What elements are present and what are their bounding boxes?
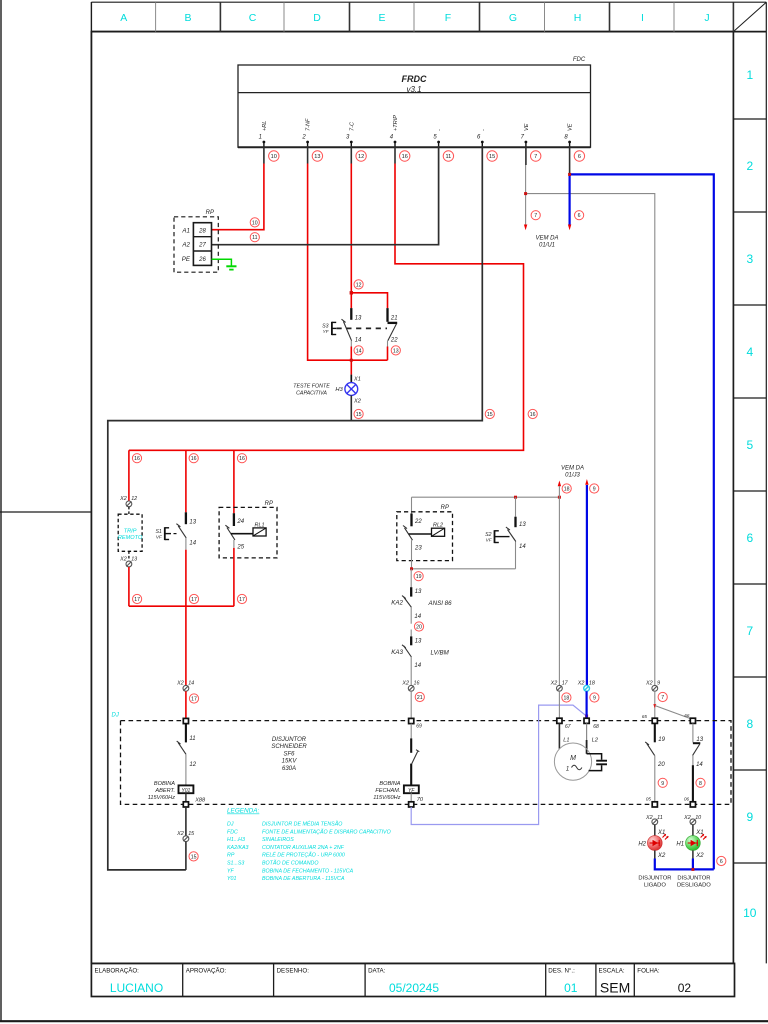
wire pin2 red down to S3 loop [308,146,388,360]
wire to RL2 [411,497,413,513]
svg-text:BOBINA: BOBINA [154,781,175,787]
svg-text:LEGENDA:: LEGENDA: [227,808,260,815]
svg-text:1: 1 [746,68,753,82]
svg-text:BOBINA DE ABERTURA - 115VCA: BOBINA DE ABERTURA - 115VCA [262,876,345,882]
svg-text:F: F [445,12,451,24]
svg-text:13: 13 [355,315,362,321]
branch 1 wire red [128,450,130,501]
wire S3 loop to contact 21 [351,293,388,308]
ref 17 [189,694,198,703]
svg-text:FONTE DE ALIMENTAÇÃO E DISPARO: FONTE DE ALIMENTAÇÃO E DISPARO CAPACITIV… [262,828,391,835]
svg-text:630A: 630A [282,766,296,772]
svg-text:17: 17 [239,597,245,603]
svg-text:L2: L2 [592,738,599,744]
svg-text:01/J3: 01/J3 [565,473,580,479]
svg-text:CONTATOR AUXILIAR 2NA + 2NF: CONTATOR AUXILIAR 2NA + 2NF [262,845,345,851]
svg-text:B: B [184,12,191,24]
svg-text:10: 10 [743,906,757,920]
terminal square YF bottom [409,802,414,807]
svg-text:RL1: RL1 [255,522,265,528]
svg-text:TESTE FONTE: TESTE FONTE [293,383,330,389]
svg-text:11: 11 [657,815,663,821]
svg-text:70: 70 [417,797,424,803]
ref 15 right [485,409,494,418]
ref 6 [717,856,726,865]
svg-text:DISJUNTOR: DISJUNTOR [272,737,307,743]
svg-text:-: - [437,129,443,131]
coil YF [404,785,419,793]
svg-text:8: 8 [746,717,753,731]
svg-text:DJ: DJ [227,822,234,828]
svg-text:25: 25 [236,544,244,550]
wire 18 down to X2 17 [558,497,560,685]
wire to X2 15 [185,807,187,836]
bottom tie rail red [129,605,234,607]
svg-text:13: 13 [415,638,422,644]
ref 14 [354,346,363,355]
lamp captions [638,875,711,888]
svg-text:10: 10 [252,220,258,226]
wire PE green [212,259,232,266]
svg-text:DISJUNTOR DE MÉDIA TENSÃO: DISJUNTOR DE MÉDIA TENSÃO [262,821,342,828]
ref 18 [562,484,571,493]
svg-text:BOBINA: BOBINA [379,781,400,787]
wire lamp to rail 15 [350,395,352,420]
svg-text:L1: L1 [563,738,569,744]
breaker DJ dashed box [121,721,732,805]
relay RP terminal block (A1 A2 PE) [174,210,218,272]
svg-text:14: 14 [414,663,421,669]
ref 11 [250,233,259,242]
svg-text:A1: A1 [181,227,190,234]
ref 8 aux [696,778,705,787]
svg-text:SF6: SF6 [283,751,295,757]
terminal square aux left bottom [652,802,657,807]
svg-text:01/U1: 01/U1 [539,243,555,249]
svg-text:A2: A2 [181,242,190,249]
capacitor [587,754,607,771]
svg-text:YF: YF [408,788,415,794]
svg-text:TRIP: TRIP [124,528,137,534]
svg-text:LUCIANO: LUCIANO [110,981,163,995]
node 12 junction [350,291,353,294]
ref 19 [414,572,423,581]
motor M1 spring rewind [554,723,599,780]
svg-text:17: 17 [191,597,197,603]
svg-text:16: 16 [134,456,140,462]
ref 13 [391,346,400,355]
svg-text:13: 13 [519,522,526,528]
ref 12 [354,280,363,289]
svg-text:22: 22 [390,337,398,343]
node wire7 junction [524,192,527,195]
svg-text:ELABORAÇÃO:: ELABORAÇÃO: [95,968,140,975]
svg-text:11: 11 [189,736,195,742]
FRDC pin 7 VE [521,123,530,147]
svg-text:FOLHA:: FOLHA: [637,968,660,975]
svg-text:I: I [641,12,644,24]
svg-text:X2: X2 [119,496,127,502]
svg-text:SEM: SEM [600,980,630,996]
svg-text:X2: X2 [645,815,653,821]
svg-text:14: 14 [696,762,703,768]
svg-text:S1...S3: S1...S3 [227,861,244,867]
breaker contact 11-12 [177,724,197,786]
svg-text:SCHNEIDER: SCHNEIDER [271,744,307,750]
FRDC pin 6 - [477,129,486,147]
svg-text:X2: X2 [645,681,653,687]
svg-text:G: G [509,12,517,24]
svg-text:X2: X2 [176,681,184,687]
ref 9 [590,484,599,493]
svg-text:66: 66 [684,713,690,718]
svg-text:7: 7 [534,213,537,219]
terminal square Y01 bottom [183,802,188,807]
wire pin4 red trip rail [129,146,524,450]
svg-text:24: 24 [236,519,244,525]
svg-text:+TRIP: +TRIP [393,115,399,131]
S3 mechanical dashed link [337,327,388,329]
ref 9 aux [658,778,667,787]
svg-text:15: 15 [487,412,493,418]
svg-text:KA3: KA3 [391,649,403,656]
svg-text:CAPACITIVA: CAPACITIVA [296,390,327,396]
svg-text:67: 67 [565,724,571,730]
arrow down VEM DA 01/U1 wire 7 [524,225,527,231]
svg-text:12: 12 [131,496,137,502]
svg-text:9: 9 [593,696,596,702]
svg-text:+RL: +RL [262,121,268,131]
svg-text:06: 06 [684,796,690,801]
svg-text:02: 02 [678,981,692,995]
svg-text:15: 15 [191,854,197,860]
wire pin6 black rail 15 [108,146,483,870]
svg-text:26: 26 [198,257,206,263]
svg-text:BOTÃO DE COMANDO: BOTÃO DE COMANDO [262,860,319,867]
svg-text:14: 14 [414,614,421,620]
svg-text:1: 1 [259,135,262,141]
svg-text:D: D [313,12,321,24]
sheet left margin vertical [90,2,92,963]
svg-text:10: 10 [271,154,277,160]
svg-text:YF: YF [227,868,235,874]
svg-text:BOBINA DE FECHAMENTO - 115VCA: BOBINA DE FECHAMENTO - 115VCA [262,868,354,874]
lamp H3 [345,383,358,396]
svg-text:9: 9 [593,487,596,493]
right column row dividers [733,119,766,863]
svg-text:23: 23 [414,546,422,552]
FRDC pin 3 7-C [346,121,355,147]
terminal square aux right bottom [690,802,695,807]
svg-text:FDC: FDC [573,57,586,63]
svg-text:6: 6 [720,859,723,865]
wire YF return light blue [411,705,586,824]
lamp H2 red [654,825,656,836]
svg-text:7: 7 [661,695,664,701]
svg-text:11: 11 [445,154,451,160]
node wire8 junction [568,173,571,176]
svg-text:69: 69 [416,724,422,730]
ref 7 [658,692,667,701]
branch 3 wire red [233,450,235,513]
node split to aux contacts [653,704,656,708]
svg-text:17: 17 [191,697,197,703]
svg-text:H3: H3 [335,387,343,393]
svg-text:X1: X1 [353,377,361,383]
refs 17 [133,594,247,603]
svg-text:20: 20 [416,625,422,631]
svg-text:13: 13 [415,589,422,595]
svg-text:15: 15 [188,831,195,837]
svg-text:FECHAM.: FECHAM. [375,788,400,794]
svg-text:A: A [120,12,127,24]
svg-text:FDC: FDC [227,829,238,835]
svg-text:LIGADO: LIGADO [644,883,666,889]
terminal square 68 [584,718,589,723]
svg-text:13: 13 [131,556,137,562]
svg-text:14: 14 [355,337,362,343]
svg-text:X2: X2 [401,681,409,687]
svg-text:SINALEIROS: SINALEIROS [262,837,294,843]
svg-text:12: 12 [358,154,364,160]
svg-text:14: 14 [188,681,194,687]
ref 6 [575,211,584,220]
svg-text:DES. N°.:: DES. N°.: [548,968,575,975]
FRDC pin 4 +TRIP [390,115,399,147]
ref 9 [590,693,599,702]
arrow down VEM DA 01/U1 wire 6 [568,225,571,231]
DJ aux contact 19-20 [645,723,665,801]
svg-text:RP: RP [206,210,214,216]
TRIP REMOTO box [128,507,130,514]
branch 2 wire red [185,450,187,512]
svg-text:RELÉ DE PROTEÇÃO - URP 6000: RELÉ DE PROTEÇÃO - URP 6000 [262,852,345,859]
svg-text:-: - [480,129,486,131]
right column numbers [743,68,757,920]
svg-text:KA2/KA3: KA2/KA3 [227,845,249,851]
svg-text:16: 16 [191,456,197,462]
svg-text:18: 18 [589,681,595,687]
svg-text:X2: X2 [695,853,704,859]
svg-text:Y01: Y01 [181,788,190,794]
svg-text:E: E [378,12,385,24]
svg-text:DISJUNTOR: DISJUNTOR [638,875,671,881]
svg-text:C: C [249,12,257,24]
svg-text:2: 2 [301,135,306,141]
svg-text:RP: RP [265,501,273,507]
svg-text:X2: X2 [657,853,666,859]
svg-text:H2: H2 [638,842,646,848]
switch S3 contact 13-14 [342,308,363,383]
FRDC power supply block U1 [238,65,591,147]
svg-text:3: 3 [746,252,753,266]
terminal square Y01 top [183,718,188,723]
breaker contact YF [411,724,419,786]
terminal square aux right top [690,718,695,723]
svg-text:5: 5 [746,438,753,452]
svg-text:J: J [704,12,709,24]
svg-text:21: 21 [417,695,423,701]
title block [91,963,734,996]
svg-text:FRDC: FRDC [402,74,427,84]
svg-text:H1...H3: H1...H3 [227,837,245,843]
svg-text:ESCALA:: ESCALA: [599,968,625,975]
svg-text:20: 20 [657,762,665,768]
svg-text:15: 15 [489,154,495,160]
svg-text:17: 17 [562,681,569,687]
svg-text:DISJUNTOR: DISJUNTOR [677,875,710,881]
svg-text:VE: VE [568,123,574,131]
lamp return blue [655,859,714,870]
svg-text:12: 12 [189,762,196,768]
svg-text:DJ: DJ [112,713,120,719]
svg-text:05: 05 [646,796,652,801]
top strip letters [120,12,709,24]
svg-text:ABERT.: ABERT. [154,788,175,794]
FRDC pin 8 VE [564,123,573,147]
svg-text:14: 14 [519,544,526,550]
RL1 contact 24-25 [225,513,266,606]
svg-text:7-C: 7-C [349,121,355,131]
wire pin7 VE gray [526,146,655,688]
wire refs under FRDC [269,151,585,161]
svg-text:8: 8 [699,781,702,787]
svg-text:7: 7 [746,624,753,638]
switch S3 contact 21-22 [388,308,399,360]
ref 20 [414,622,423,631]
svg-text:9: 9 [661,781,664,787]
pushbutton S1 [155,512,196,606]
svg-text:RL2: RL2 [433,523,443,529]
ref 10 [250,218,259,227]
ref 21 [415,692,424,701]
svg-text:15KV: 15KV [282,759,298,765]
BOBINA FECHAM label [373,781,401,801]
S2 return rail [412,568,516,570]
svg-text:115V/60Hz: 115V/60Hz [373,795,400,801]
svg-text:REMOTO: REMOTO [118,535,143,541]
svg-text:22: 22 [414,519,422,525]
wire pin8 VE blue [570,146,714,869]
BOBINA ABERT label [148,781,176,801]
svg-text:X2: X2 [119,556,127,562]
svg-text:2: 2 [746,159,753,173]
title block labels [95,968,660,975]
ground [226,266,236,269]
svg-text:11: 11 [252,235,257,241]
svg-text:18: 18 [564,696,570,702]
svg-text:VE: VE [524,123,530,131]
svg-text:DATA:: DATA: [368,968,386,975]
svg-text:21: 21 [390,315,398,321]
svg-text:17: 17 [134,597,140,603]
svg-text:X2: X2 [353,399,362,405]
svg-text:VEM DA: VEM DA [535,236,558,242]
node 14 junction [350,359,353,362]
svg-text:9: 9 [657,681,660,687]
svg-text:Y01: Y01 [227,876,236,882]
top strip column dividers [156,2,734,31]
svg-text:16: 16 [530,412,536,418]
svg-text:4: 4 [746,345,753,359]
svg-text:RP: RP [441,505,449,511]
FRDC pin 1 +RL [259,121,268,147]
ref 7 [531,211,540,220]
svg-text:7-NF: 7-NF [306,118,312,131]
wire pin1 red to RP 28 [212,146,264,230]
svg-text:13: 13 [314,154,320,160]
ref 16 [528,409,537,418]
S3 button actuator [332,322,336,335]
title block dividers [183,963,635,996]
pushbutton S2 [485,497,526,569]
svg-text:7: 7 [534,154,537,160]
svg-text:M: M [570,755,576,762]
svg-text:v3.1: v3.1 [406,85,421,94]
svg-text:ANSI 86: ANSI 86 [428,600,453,607]
svg-text:6: 6 [746,531,753,545]
svg-text:16: 16 [414,681,420,687]
svg-text:H: H [574,12,582,24]
svg-text:27: 27 [198,243,206,249]
refs 16 on trip rail [132,454,246,463]
svg-text:115V/60Hz: 115V/60Hz [148,795,175,801]
svg-text:10: 10 [695,815,701,821]
svg-text:VEM DA: VEM DA [561,466,584,472]
svg-text:PE: PE [182,256,191,263]
svg-text:65: 65 [642,714,648,719]
page left edge [0,0,2,1021]
contactor KA2 contact ANSI 86 [391,587,452,624]
wire pin5 black to RP 27 [212,146,439,245]
relay RP RL1 box [219,507,277,558]
terminal square aux left top [652,718,657,723]
node rail 18 gray [412,496,560,498]
title block values [110,980,692,996]
wire pin3 red down to S3 contact [350,146,352,308]
svg-text:KA2: KA2 [391,600,403,607]
RL2 contact 22-23 [403,514,445,569]
FRDC pin 5 - [433,129,442,147]
branch2 continues to X2 14 [185,606,187,685]
svg-text:X1: X1 [657,830,665,836]
svg-text:DESENHO:: DESENHO: [277,968,310,975]
svg-text:14: 14 [356,348,362,354]
margin divider [0,511,91,513]
svg-text:13: 13 [393,348,399,354]
terminal square YF top [409,718,414,723]
svg-text:DESLIGADO: DESLIGADO [677,883,711,889]
top strip [91,1,766,3]
svg-text:19: 19 [658,737,665,743]
main border [91,32,733,964]
svg-text:68: 68 [593,724,599,730]
svg-text:6: 6 [578,213,581,219]
page bottom line [0,1020,768,1022]
svg-text:05/20245: 05/20245 [389,981,439,995]
svg-text:14: 14 [189,541,196,547]
svg-text:18: 18 [564,487,570,493]
svg-text:16: 16 [402,154,408,160]
coil Y01 [179,785,194,793]
svg-text:01: 01 [564,981,578,995]
ref 15 [354,409,363,418]
lamp H1 green [692,825,694,836]
contactor KA3 contact LV/BM [391,636,449,685]
DJ aux contact 13-14 NC [693,723,704,801]
svg-text:13: 13 [696,737,703,743]
svg-text:H1: H1 [676,842,684,848]
